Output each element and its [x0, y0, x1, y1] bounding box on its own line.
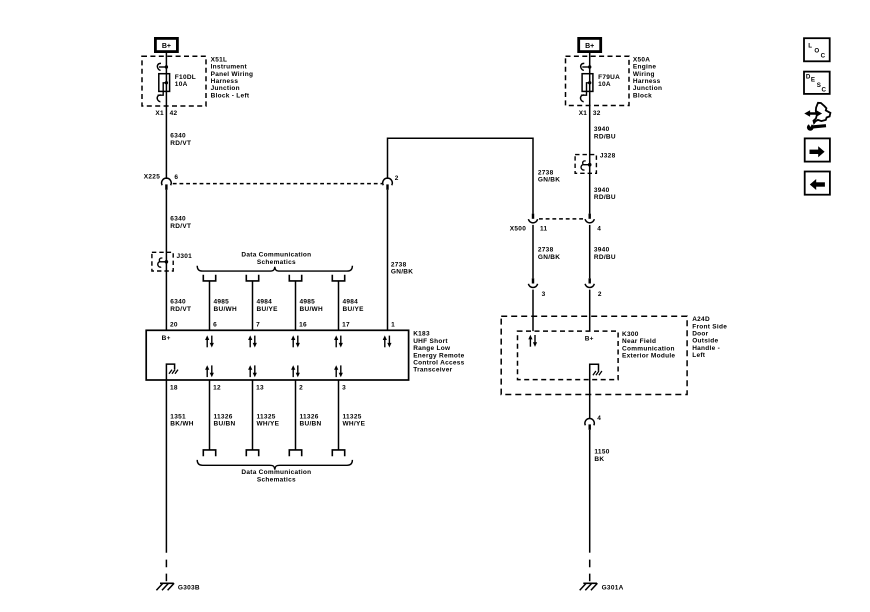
- svg-text:18: 18: [170, 384, 178, 391]
- svg-text:K183: K183: [413, 331, 430, 338]
- svg-text:BU/BN: BU/BN: [214, 421, 236, 428]
- svg-text:11325: 11325: [343, 414, 362, 421]
- label F10DL 10A: [175, 74, 196, 88]
- svg-text:BU/YE: BU/YE: [257, 306, 279, 313]
- wire labels bottom row: [170, 414, 365, 428]
- svg-text:11325: 11325: [257, 414, 276, 421]
- svg-text:6: 6: [213, 321, 217, 328]
- svg-text:B+: B+: [162, 335, 171, 342]
- svg-text:10A: 10A: [175, 81, 188, 88]
- brace top: [197, 266, 352, 271]
- button DESC: [804, 72, 830, 94]
- connector X500 pin 11: [528, 214, 537, 223]
- svg-text:X1: X1: [155, 110, 164, 117]
- B+ label inside K300: [585, 336, 594, 343]
- svg-text:RD/VT: RD/VT: [170, 306, 191, 313]
- svg-text:Left: Left: [692, 352, 706, 359]
- svg-text:Instrument: Instrument: [211, 64, 248, 71]
- svg-text:E: E: [811, 77, 815, 84]
- label X51L Instrument Panel Wiring Harness Junction Block - Left: [211, 56, 254, 99]
- svg-text:Harness: Harness: [211, 78, 239, 85]
- svg-text:BU/YE: BU/YE: [343, 306, 365, 313]
- module A24D outer dashed box: [501, 316, 687, 394]
- fuse F79UA: [580, 63, 592, 101]
- dashed connector link X500: [539, 218, 584, 220]
- svg-text:6340: 6340: [170, 216, 186, 223]
- svg-text:10A: 10A: [598, 81, 611, 88]
- svg-text:4985: 4985: [300, 299, 316, 306]
- svg-text:42: 42: [170, 110, 178, 117]
- svg-text:X50A: X50A: [633, 56, 650, 63]
- svg-text:6: 6: [174, 174, 178, 181]
- label Data Communication Schematics bottom: [241, 469, 311, 483]
- svg-text:BK/WH: BK/WH: [170, 421, 193, 428]
- svg-text:RD/VT: RD/VT: [170, 223, 191, 230]
- svg-text:BK: BK: [594, 456, 604, 463]
- button back (left arrow): [805, 172, 830, 195]
- svg-text:RD/BU: RD/BU: [594, 254, 616, 261]
- svg-text:Outside: Outside: [692, 338, 718, 345]
- svg-text:C: C: [821, 53, 826, 60]
- svg-text:L: L: [808, 42, 812, 49]
- wires cups to K183 top pins: [210, 281, 339, 330]
- svg-text:Schematics: Schematics: [257, 259, 296, 266]
- svg-text:X225: X225: [144, 174, 160, 181]
- svg-text:G303B: G303B: [178, 585, 200, 592]
- wire 1150 BK: [589, 430, 591, 553]
- svg-text:3940: 3940: [594, 187, 610, 194]
- svg-text:16: 16: [299, 321, 307, 328]
- svg-text:13: 13: [256, 384, 264, 391]
- wire label 3940 RD/BU (3): [594, 247, 616, 261]
- svg-text:Block: Block: [633, 92, 652, 99]
- label K300 Near Field Communication Exterior Module: [622, 331, 675, 360]
- button next (right arrow): [805, 138, 830, 161]
- svg-text:6340: 6340: [170, 133, 186, 140]
- pin labels X1 42: [155, 110, 177, 117]
- svg-text:Control Access: Control Access: [413, 360, 464, 367]
- svg-text:Data Communication: Data Communication: [241, 252, 311, 259]
- svg-text:2: 2: [395, 175, 399, 182]
- pin labels X1 32: [579, 110, 601, 117]
- ground symbol inside K183: [166, 364, 178, 380]
- svg-text:17: 17: [342, 321, 350, 328]
- svg-text:GN/BK: GN/BK: [538, 254, 560, 261]
- svg-text:2738: 2738: [538, 169, 554, 176]
- wire label 6340 RD/VT (2): [170, 216, 191, 230]
- svg-text:Range Low: Range Low: [413, 345, 451, 352]
- ground symbol inside K300: [590, 364, 602, 394]
- svg-text:6340: 6340: [170, 299, 186, 306]
- svg-text:1: 1: [391, 321, 395, 328]
- svg-text:Exterior Module: Exterior Module: [622, 353, 675, 360]
- svg-text:11326: 11326: [214, 414, 233, 421]
- svg-text:F79UA: F79UA: [598, 74, 620, 81]
- svg-text:Energy Remote: Energy Remote: [413, 352, 464, 359]
- connector X225 pin 6: [162, 178, 172, 190]
- wire label 6340 RD/VT (3): [170, 299, 191, 313]
- svg-text:2738: 2738: [538, 247, 554, 254]
- svg-text:RD/VT: RD/VT: [170, 140, 191, 147]
- svg-text:O: O: [814, 48, 819, 55]
- svg-text:Data Communication: Data Communication: [241, 469, 311, 476]
- label F79UA 10A: [598, 74, 620, 88]
- svg-text:Door: Door: [692, 331, 708, 338]
- junction block X51L dashed box: [142, 56, 206, 106]
- wire label 2738 GN/BK left: [391, 261, 413, 275]
- wire X225 down to K183 pin 20: [165, 190, 167, 330]
- svg-text:1150: 1150: [594, 449, 609, 456]
- svg-text:3940: 3940: [594, 247, 610, 254]
- svg-text:B+: B+: [162, 43, 171, 50]
- ground G301A: [580, 583, 624, 591]
- pin number row below K183: [170, 384, 346, 391]
- wires into A24D: [533, 290, 590, 332]
- K183 top row arrows: [205, 335, 391, 347]
- labels X500 11 4: [510, 226, 602, 233]
- connector pin 4 below A24D: [585, 395, 601, 430]
- svg-text:BU/WH: BU/WH: [214, 306, 237, 313]
- wire label 2738 GN/BK corner: [538, 169, 560, 183]
- svg-text:X1: X1: [579, 110, 588, 117]
- svg-text:G301A: G301A: [602, 585, 624, 592]
- brace bottom: [197, 460, 352, 470]
- svg-text:2: 2: [299, 384, 303, 391]
- splice J328: [575, 153, 615, 174]
- K183 bottom row arrows: [205, 365, 343, 377]
- connector X225 pin 2: [383, 175, 399, 190]
- connector pin 2: [585, 278, 602, 298]
- K300 arrows: [528, 335, 537, 347]
- pin number row above K183: [170, 321, 395, 328]
- svg-text:J328: J328: [600, 153, 616, 160]
- svg-text:12: 12: [213, 384, 221, 391]
- label K183 UHF Short Range Low Energy Remote Control Access Transceiver: [413, 331, 464, 374]
- svg-text:RD/BU: RD/BU: [594, 133, 616, 140]
- svg-text:S: S: [817, 82, 821, 89]
- svg-text:1351: 1351: [170, 414, 186, 421]
- wire connector2 up and over to X500: [388, 138, 534, 213]
- svg-text:4984: 4984: [343, 299, 359, 306]
- B+ symbol left: [155, 38, 177, 51]
- svg-text:11: 11: [540, 226, 548, 233]
- svg-text:X51L: X51L: [211, 56, 228, 63]
- wire label 2738 GN/BK (2): [538, 247, 560, 261]
- svg-text:F10DL: F10DL: [175, 74, 196, 81]
- wire 2738 connector2 down to K183 pin 1: [387, 190, 389, 330]
- dashed wire to ground G303B: [165, 560, 167, 582]
- svg-text:Front Side: Front Side: [692, 323, 727, 330]
- svg-text:UHF Short: UHF Short: [413, 338, 448, 345]
- svg-text:WH/YE: WH/YE: [257, 421, 280, 428]
- svg-text:J301: J301: [177, 253, 193, 260]
- svg-text:32: 32: [593, 110, 601, 117]
- svg-text:BU/BN: BU/BN: [300, 421, 322, 428]
- svg-text:C: C: [822, 87, 827, 94]
- svg-text:Wiring: Wiring: [633, 71, 655, 78]
- svg-text:Schematics: Schematics: [257, 476, 296, 483]
- svg-text:3: 3: [342, 384, 346, 391]
- wires X500 down: [533, 225, 590, 278]
- wire B+ to X225: [165, 52, 167, 179]
- svg-text:B+: B+: [585, 336, 594, 343]
- ground G303B: [156, 583, 200, 591]
- dashed wire to ground G301A: [589, 560, 591, 582]
- fuse F10DL: [157, 63, 169, 101]
- svg-text:RD/BU: RD/BU: [594, 194, 616, 201]
- svg-text:11326: 11326: [300, 414, 319, 421]
- svg-text:Handle -: Handle -: [692, 345, 720, 352]
- wire label 1150 BK: [594, 449, 609, 463]
- svg-text:Junction: Junction: [633, 85, 662, 92]
- svg-text:WH/YE: WH/YE: [343, 421, 366, 428]
- svg-text:7: 7: [256, 321, 260, 328]
- dashed connector link X225: [173, 183, 382, 185]
- wire label 3940 RD/BU (2): [594, 187, 616, 201]
- wires below K183: [166, 380, 338, 553]
- svg-text:2: 2: [598, 291, 602, 298]
- connector X500 pin 4: [585, 214, 594, 223]
- module K183 box: [146, 330, 408, 380]
- svg-text:4985: 4985: [214, 299, 230, 306]
- label X50A Engine Wiring Harness Junction Block: [633, 56, 662, 99]
- svg-text:B+: B+: [585, 43, 594, 50]
- svg-text:Harness: Harness: [633, 78, 661, 85]
- svg-text:4: 4: [597, 226, 601, 233]
- wire label 3940 RD/BU (1): [594, 126, 616, 140]
- junction block X50A dashed box: [566, 56, 630, 105]
- svg-text:Near Field: Near Field: [622, 338, 656, 345]
- svg-text:GN/BK: GN/BK: [391, 269, 413, 276]
- svg-text:Engine: Engine: [633, 64, 656, 71]
- svg-text:BU/WH: BU/WH: [300, 306, 323, 313]
- svg-text:2738: 2738: [391, 261, 407, 268]
- svg-text:4984: 4984: [257, 299, 273, 306]
- label A24D Front Side Door Outside Handle - Left: [692, 316, 727, 359]
- off-page connector symbols top (4 cups): [203, 275, 344, 281]
- svg-text:A24D: A24D: [692, 316, 710, 323]
- svg-text:Block - Left: Block - Left: [211, 92, 250, 99]
- svg-text:K300: K300: [622, 331, 639, 338]
- splice J301: [152, 252, 192, 271]
- wire labels 4985/4984 row: [214, 299, 365, 313]
- button LOC: [804, 38, 830, 61]
- svg-text:20: 20: [170, 321, 178, 328]
- connector pin 3: [528, 278, 545, 298]
- icon swap/car with wrench: [804, 103, 830, 131]
- svg-text:Transceiver: Transceiver: [413, 367, 452, 374]
- svg-text:Panel Wiring: Panel Wiring: [211, 71, 254, 78]
- module K300 inner dashed box: [518, 331, 619, 380]
- svg-text:X500: X500: [510, 226, 526, 233]
- B+ symbol right: [579, 38, 601, 51]
- svg-text:GN/BK: GN/BK: [538, 177, 560, 184]
- svg-text:4: 4: [597, 415, 601, 422]
- off-page connector symbols bottom (4 caps): [203, 450, 344, 456]
- svg-text:Communication: Communication: [622, 345, 675, 352]
- label X225 and pin 6: [144, 174, 179, 181]
- label Data Communication Schematics top: [241, 252, 311, 266]
- svg-text:3: 3: [542, 291, 546, 298]
- wire label 6340 RD/VT (1): [170, 133, 191, 147]
- svg-text:Junction: Junction: [211, 85, 240, 92]
- wire B+ down to X500 pin 4: [589, 52, 591, 214]
- svg-text:3940: 3940: [594, 126, 610, 133]
